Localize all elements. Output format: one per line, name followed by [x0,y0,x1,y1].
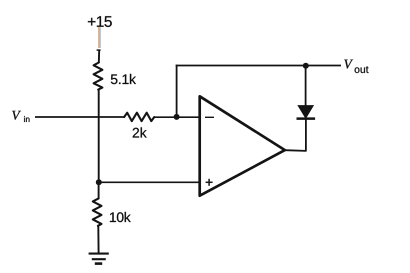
wire R1 bottom to node B (vertical rail crossing Vin line) [98,89,100,183]
Vin label [12,111,29,122]
value label 2k [133,127,147,137]
value label 5.1k [111,74,136,84]
Vout label [344,60,368,73]
op-amp U1 [200,96,285,195]
wire feedback top horizontal to Vout [176,65,341,67]
wire feedback vertical [176,65,178,117]
diode D1 [297,106,316,119]
wire diode anode to node C [305,66,307,107]
wire node B to non-inverting input [99,181,201,183]
+15 supply label [88,16,112,27]
wire op-amp output to diode branch [285,119,306,151]
node A (summing junction dot) [174,114,180,120]
wire lead into R1 [97,50,101,63]
ground [89,254,109,264]
wire node B to R3 [98,182,100,199]
resistor R3 10k [93,198,102,225]
pin label minus (inverting input) [205,116,214,118]
resistor R2 2k [124,113,154,121]
wire +15 lead (scan-colored segment) [99,27,100,48]
node C (output node dot) [303,63,309,69]
resistor R1 5.1k [94,63,103,90]
value label 10k [110,212,131,222]
wire Vin to R2 [35,116,125,118]
pin label plus (non-inverting input) [206,179,213,186]
wire R3 to ground [97,226,99,254]
wire R2 to inverting input [154,116,201,118]
node B (divider junction dot) [96,179,102,185]
